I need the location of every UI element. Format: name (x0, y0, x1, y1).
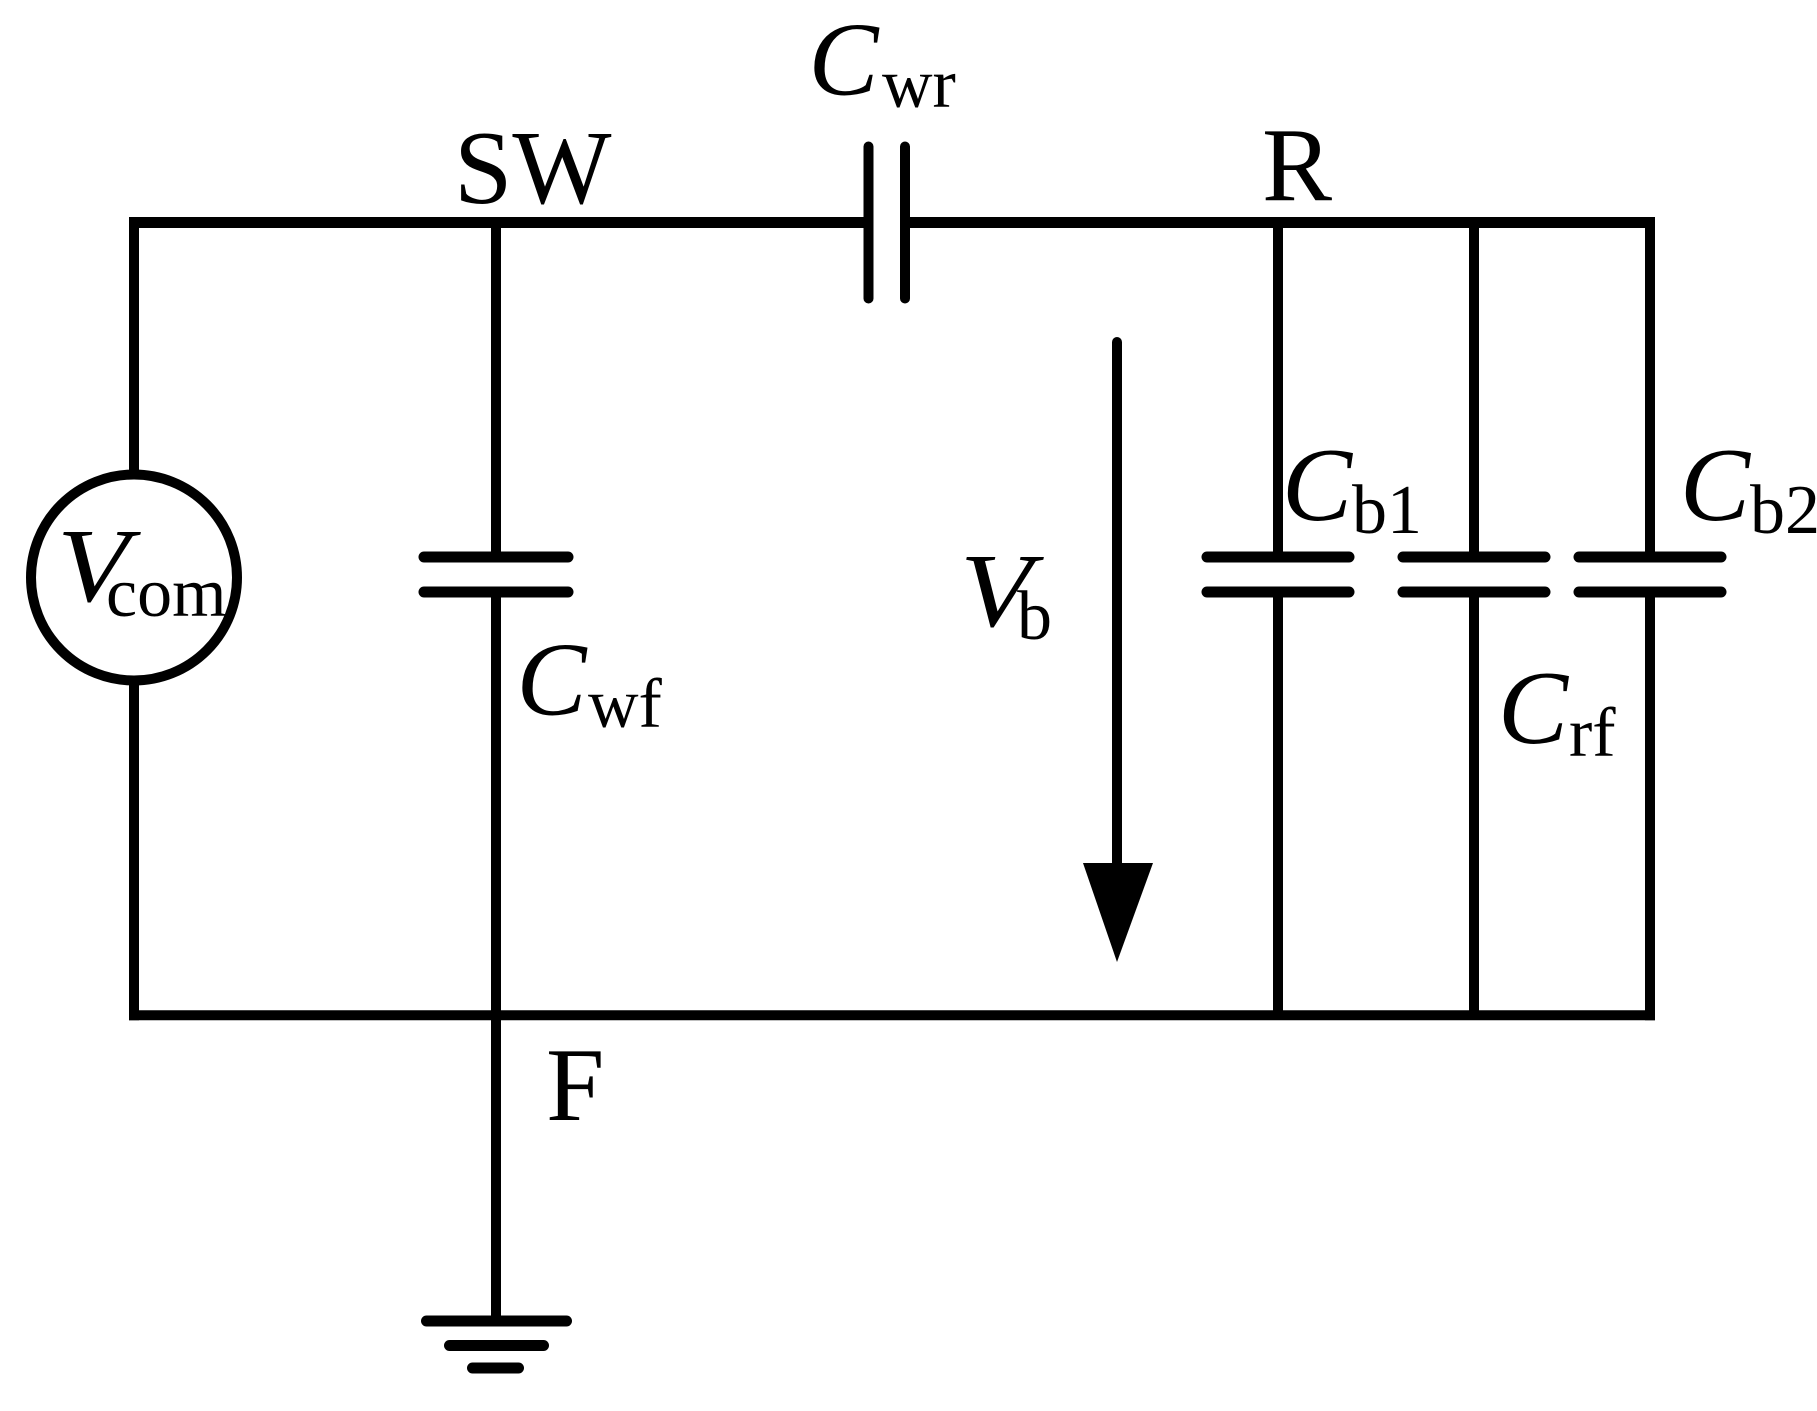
svg-text:C: C (1282, 426, 1354, 543)
svg-text:C: C (1498, 649, 1570, 766)
svg-text:C: C (1680, 426, 1752, 543)
svg-text:C: C (517, 621, 589, 738)
svg-text:SW: SW (454, 109, 612, 226)
svg-text:b2: b2 (1750, 472, 1817, 549)
svg-text:R: R (1262, 106, 1332, 223)
svg-text:rf: rf (1569, 695, 1616, 772)
svg-text:com: com (106, 555, 227, 632)
svg-text:b1: b1 (1352, 472, 1422, 549)
svg-text:b: b (1017, 578, 1052, 655)
svg-text:F: F (546, 1026, 604, 1143)
svg-text:wr: wr (882, 46, 956, 123)
svg-text:C: C (809, 1, 881, 118)
svg-text:wf: wf (588, 666, 663, 743)
